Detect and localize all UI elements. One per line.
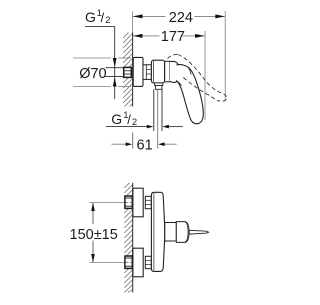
wall line upper view (132, 33, 134, 107)
svg-text:177: 177 (161, 29, 185, 45)
union nut upper view (124, 67, 132, 77)
handle needle lower view (189, 230, 208, 234)
wall hatch lower view (124, 183, 132, 293)
lever handle solid upper view (176, 65, 203, 124)
top nut centerline dashes (125, 202, 132, 204)
svg-text:150±15: 150±15 (70, 227, 118, 243)
lever root crease (188, 67, 191, 74)
svg-text:G: G (85, 9, 96, 25)
escutcheon upper view (133, 57, 143, 86)
dimension 224 (133, 10, 226, 101)
svg-text:224: 224 (169, 10, 193, 26)
label G 1/2 lower (106, 110, 183, 128)
top escutcheon lower view (133, 188, 143, 217)
svg-text:2: 2 (105, 15, 110, 26)
hex adapter upper view (143, 65, 151, 80)
cap ring upper view (165, 61, 170, 82)
svg-text:G: G (111, 111, 122, 127)
dimension 61 (112, 132, 177, 153)
supply pipe stub upper view (106, 67, 124, 69)
top connection: union nut left of wall (125, 196, 132, 208)
bottom connection: union nut left of wall (125, 256, 132, 268)
bottom nut centerline dashes (125, 262, 132, 264)
dimension Ø70 (73, 58, 131, 87)
dome hub upper view (170, 61, 179, 82)
svg-text:61: 61 (137, 138, 153, 154)
outlet pipe (154, 89, 162, 148)
bottom escutcheon lower view (133, 248, 143, 277)
top hex nut lower view (145, 196, 151, 208)
svg-text:/: / (127, 112, 131, 127)
outlet fitting below body (155, 83, 163, 89)
svg-text:Ø70: Ø70 (79, 66, 106, 82)
faucet body lower view (151, 192, 164, 271)
dimension 150±15 (70, 203, 125, 263)
dashed handle rotated position (168, 54, 227, 101)
bottom hex nut lower view (145, 256, 151, 268)
label G 1/2 top (85, 8, 117, 99)
dimension 177 (133, 29, 205, 120)
wall line lower view (132, 183, 134, 293)
svg-text:/: / (101, 10, 105, 25)
wall hatch upper view (123, 33, 133, 107)
handle step 1 lower view (165, 223, 177, 242)
handle step 2 lower view (176, 222, 189, 243)
valve body upper view (151, 60, 164, 83)
